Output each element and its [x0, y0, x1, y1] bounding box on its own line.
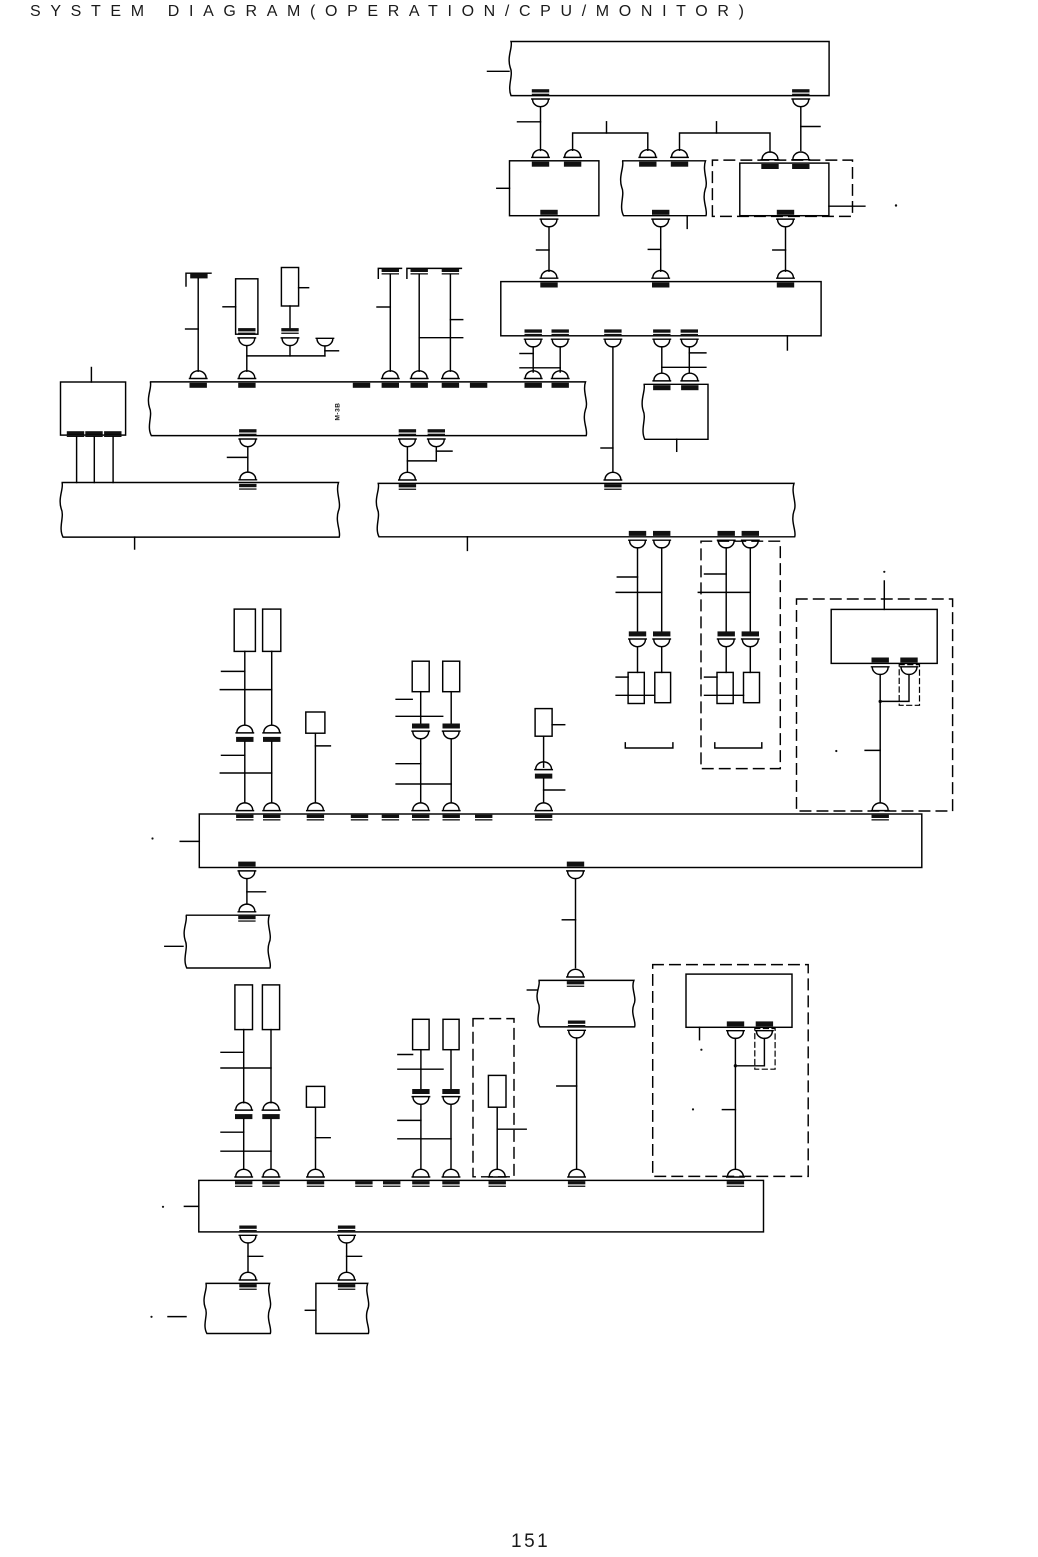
wire G10 to R1 — [243, 1119, 245, 1169]
jumper EA bracket — [378, 268, 401, 278]
tick at P13 left — [527, 989, 537, 991]
tick on wire J4-J5 — [606, 122, 608, 133]
stub below P5 right — [786, 336, 788, 350]
connector J24 on P7 top — [382, 371, 399, 388]
crossing link through H1 — [616, 694, 655, 696]
wire J11 down — [660, 227, 662, 271]
board box P9 (torn left) — [642, 384, 708, 439]
tick on F4 left — [396, 698, 412, 700]
component H3 box — [717, 672, 733, 703]
connector K8 on P8R bottom — [653, 531, 670, 548]
tick at P17 left — [305, 1309, 316, 1311]
crossing link K7-K8 — [616, 591, 662, 593]
connector L9 on P11 bottom — [567, 862, 584, 879]
inline connector G6 on wire K7 — [629, 631, 646, 646]
inline connector G12 on wire F10 — [412, 1089, 429, 1104]
wire F4 down — [420, 692, 422, 724]
dashed enclosure D1 — [701, 541, 780, 768]
inline connector G11 on wire F8 — [262, 1102, 279, 1119]
wire E4 to bus — [324, 346, 326, 356]
bus joining E2 E3 E4 — [247, 355, 325, 357]
tick on wire J32 — [436, 450, 452, 452]
connector L8 on P11 bottom — [238, 862, 255, 879]
connector J15 on P5 top — [777, 271, 794, 288]
jumper EB bar — [411, 269, 428, 275]
crossing link through H3 — [705, 694, 744, 696]
inline connector G3 on wire F4 — [412, 724, 429, 739]
board box P16 (torn left+right) — [204, 1283, 271, 1333]
dashed enclosure D2 — [797, 599, 953, 811]
connector L3 on P11 top — [307, 803, 324, 821]
wire stub from P4 right — [829, 205, 865, 207]
tick on wire J6-J7 — [716, 122, 718, 133]
stub below P8L — [134, 537, 136, 549]
title — [30, 3, 754, 21]
tick on wire K9 — [705, 573, 727, 575]
dashed enclosure around P4 — [712, 160, 852, 216]
board box P14 — [686, 974, 792, 1027]
wire stub into P6 top — [90, 368, 92, 383]
tick on wire L9 — [562, 919, 575, 921]
connector R2 on P15 top — [262, 1169, 279, 1187]
tick on wire J11 — [648, 248, 660, 250]
wire J2 to J10 — [800, 108, 802, 151]
component F7 box — [235, 985, 253, 1030]
connector S2 on P17 top — [338, 1272, 355, 1290]
connector J5 on P3 top — [639, 150, 656, 167]
crossing link under G3-G4 — [396, 783, 451, 785]
component F4 box — [412, 661, 429, 692]
dome under E3 — [281, 338, 298, 346]
wire F1 down — [244, 651, 246, 724]
tick on wire M1 — [865, 749, 880, 751]
stub below P14 left — [699, 1027, 701, 1039]
connector J16 on P5 bottom — [525, 329, 542, 347]
board box P4 — [740, 163, 829, 216]
tick on E3 right — [299, 287, 309, 289]
connector K11 on P9 top — [653, 373, 670, 390]
board box P8L (torn left+right) — [60, 483, 339, 538]
connector L4 on P11 top — [412, 803, 429, 821]
tick on wire E4 — [325, 350, 339, 352]
tick on wire J16 — [520, 353, 533, 355]
tick on wire EC — [450, 319, 462, 321]
board box P13 (torn left+right) — [537, 980, 635, 1027]
connector J30 on P7 bottom — [239, 429, 256, 447]
wire K3 down to P8L — [112, 437, 114, 483]
wire EC down to J26 — [449, 274, 451, 371]
jumper E1 bracket — [186, 273, 211, 286]
connector J19 on P5 bottom — [653, 329, 670, 347]
inline connector G4 on wire F5 — [443, 724, 460, 739]
crossing link under F10 — [398, 1068, 443, 1070]
connector J20 on P5 bottom — [681, 329, 698, 347]
tick on wire F3 — [315, 745, 330, 747]
tick under G5 — [544, 789, 565, 791]
connector K10 on P8R bottom (in dashed area) — [742, 531, 759, 548]
connector M3 on P14 bottom — [727, 1021, 744, 1038]
connector J2 on P1 bottom — [792, 89, 809, 107]
component F6 box — [535, 709, 552, 737]
connector J14 on P5 top — [652, 271, 669, 288]
wire R10 down — [247, 1243, 249, 1271]
wire F10 down — [420, 1050, 422, 1090]
connector L6 on P11 top — [535, 803, 552, 821]
component H2 box — [655, 672, 671, 702]
tick on F10 left — [398, 1054, 413, 1056]
connector M1 on P10 bottom — [872, 658, 889, 675]
jumper EA bar — [382, 269, 399, 275]
board box P6 — [61, 382, 126, 435]
dome E4 — [316, 338, 333, 346]
connector R8 on P15 top — [568, 1169, 585, 1187]
wire M2 elbow to junction — [880, 675, 909, 702]
component F3 square — [306, 712, 325, 733]
tick under G12 — [398, 1119, 421, 1121]
wire L8 down — [246, 879, 248, 903]
connector J32 on P7 bottom — [428, 429, 445, 447]
tick on wire F7 — [221, 1051, 244, 1053]
wire F8 down — [270, 1030, 272, 1103]
wire K2 down to P8L — [93, 437, 95, 483]
plain bar connector R3c on P15 top — [383, 1181, 400, 1187]
svg-text:M-3B: M-3B — [335, 403, 342, 421]
tick on wire N3 — [557, 1085, 577, 1087]
wire J20 down to P9 — [688, 347, 690, 373]
connector R6 on P15 top — [489, 1169, 506, 1187]
wire F3 down to L3 — [314, 733, 316, 802]
connector J31 on P7 bottom — [399, 429, 416, 447]
connector J11 on P3 bottom — [652, 210, 669, 227]
inline connector G13 on wire F11 — [442, 1089, 459, 1104]
component H4 box — [744, 672, 760, 702]
merge link J31-J32 — [407, 460, 436, 462]
tick on wire L8 — [247, 891, 266, 893]
connector S1 on P16 top — [239, 1272, 256, 1290]
dome under E2 — [238, 338, 255, 346]
wire J19 down to P9 — [661, 347, 663, 373]
crossing link wire J16-J17 — [520, 367, 560, 369]
tick under G1 — [222, 754, 245, 756]
tick on wire J12 — [773, 249, 786, 251]
wire L9 down — [575, 879, 577, 968]
page number 151 — [511, 1531, 550, 1553]
inline connector G10 on wire F7 — [235, 1102, 252, 1119]
wire E3 to bus — [289, 346, 291, 356]
wire J17 down — [559, 347, 561, 372]
board box P1 (torn left edge) — [509, 42, 829, 96]
plain bar connector L3b on P11 top — [351, 815, 368, 821]
board box P11 — [199, 814, 922, 868]
stray dot below stub — [700, 1049, 702, 1051]
connector L2 on P11 top — [263, 803, 280, 821]
wire G1 to L1 — [244, 742, 246, 803]
board box P12 (torn left+right) — [184, 915, 270, 968]
tick on F6 right — [552, 724, 565, 726]
inline connector G5 on wire F6 — [535, 762, 552, 779]
tick on wire F12 — [497, 1128, 526, 1130]
jumper E1 bar — [190, 273, 207, 278]
connector J18 on P5 bottom — [604, 329, 621, 347]
tick on H3 left — [705, 676, 718, 678]
board box P17 (torn right) — [316, 1283, 369, 1333]
tick on wire J9 — [537, 249, 550, 251]
wire F9 down to R3 — [315, 1107, 317, 1169]
wire K7 down — [637, 548, 639, 631]
connector K12 on P9 top — [681, 373, 698, 390]
component F8 box — [262, 985, 279, 1030]
board box P10 — [831, 609, 937, 663]
wire E3 down — [289, 306, 291, 328]
wire G11 to R2 — [270, 1119, 272, 1169]
dashed enclosure D3 — [653, 965, 809, 1177]
wire M1 down to L7 — [879, 675, 881, 803]
connector L1 on P11 top — [236, 803, 253, 821]
connector N1 on P12 top — [238, 904, 255, 922]
component F5 box — [443, 661, 460, 692]
wire N3 down to R8 — [576, 1038, 578, 1169]
wire G13 to R5 — [450, 1105, 452, 1170]
stray dot — [895, 204, 897, 206]
connector R3 on P15 top — [307, 1169, 324, 1187]
tick on wire F1 — [222, 670, 245, 672]
tick at P11 left — [180, 840, 199, 842]
wire J1 to J3 — [540, 108, 542, 151]
tick on wire E1 — [186, 328, 199, 330]
wire EA down to J24 — [389, 274, 391, 371]
tick at P16 left — [168, 1316, 186, 1318]
component F10 box — [413, 1019, 430, 1049]
stray dot left of wire M3 — [692, 1108, 694, 1110]
wire stub into board P1 left — [488, 70, 510, 72]
wire J18 down to P8 — [612, 347, 614, 472]
stray dot above P10 — [883, 571, 885, 573]
wire J32 down to merge — [435, 447, 437, 461]
component F2 box — [263, 609, 281, 651]
tick on H1 left — [616, 676, 628, 678]
wire EB down to J25 — [418, 274, 420, 371]
wire J6 to J7 — [680, 133, 771, 152]
connector J21 on P7 top — [190, 371, 207, 388]
wire F2 down — [271, 651, 273, 724]
wire F11 down — [450, 1050, 452, 1090]
board box P3 (torn left+right) — [621, 161, 707, 216]
label bracket under H3-H4 — [715, 743, 762, 748]
plain bar connector L3c on P11 top — [382, 815, 399, 821]
connector N3 on P13 bottom — [568, 1021, 585, 1039]
wire G7 to H2 — [661, 647, 663, 673]
connector K7 on P8R bottom — [629, 531, 646, 548]
plain bar connector J23 on P7 top — [353, 383, 370, 388]
connector K9 on P8R bottom (in dashed area) — [718, 531, 735, 548]
wire K9 down — [725, 548, 727, 631]
board box P8R (torn left+right) — [376, 483, 795, 536]
connector J3 on P2 top — [532, 150, 549, 167]
stray dot left of wire M1 — [835, 750, 837, 752]
plain bar connector R3b on P15 top — [355, 1181, 372, 1187]
component F11 box — [443, 1019, 459, 1049]
wire F7 down — [243, 1030, 245, 1103]
wire G3 to L4 — [420, 739, 422, 803]
tick on wire J18 — [601, 447, 613, 449]
tick under G3 — [396, 763, 421, 765]
wire R11 down — [346, 1243, 348, 1271]
wire G12 to R4 — [420, 1105, 422, 1170]
stray dot left of P15 — [162, 1206, 164, 1208]
tick on E2 left — [223, 306, 236, 308]
inline connector G1 on wire F1 — [236, 725, 253, 742]
connector J13 on P5 top — [540, 271, 557, 288]
tick on wire J1-J3 — [518, 121, 541, 123]
connector J7 on P4 top — [761, 152, 778, 169]
wire J31 down chain — [406, 447, 408, 472]
wire into P10 top — [883, 581, 885, 609]
crossing link F7-F8 — [221, 1067, 271, 1069]
component F1 box — [234, 609, 255, 651]
connector J26 on P7 top — [442, 371, 459, 388]
wire F5 down — [450, 692, 452, 724]
jumper EB-EC bracket — [407, 268, 462, 278]
connector bar inside E2 bottom — [238, 328, 255, 334]
wire G5 to L6 — [543, 779, 545, 803]
tick on wire R11 — [347, 1255, 362, 1257]
wire E1 down to J21 — [197, 278, 199, 371]
wire K8 down — [661, 548, 663, 631]
crossing link under G1-G2 — [220, 772, 271, 774]
stray dot left of P16 — [150, 1316, 152, 1318]
component E3 box — [281, 268, 298, 307]
connector R11 on P15 bottom — [338, 1226, 355, 1244]
junction dot M3-M4 — [734, 1064, 737, 1067]
connector J1 on P1 bottom — [532, 89, 549, 107]
tick at P15 left — [184, 1205, 198, 1207]
crossing link K9-K10 — [698, 591, 750, 593]
board box P5 — [501, 282, 821, 336]
connector J9 on P2 bottom — [540, 210, 557, 227]
connector K1 on P6 bottom — [67, 431, 84, 437]
inline connector G8 on wire K9 — [718, 631, 735, 646]
tick on wire K7 — [617, 576, 637, 578]
junction dot M1-M2 — [879, 700, 882, 703]
connector J12 on P4 bottom — [777, 210, 794, 227]
component E2 box — [236, 279, 258, 334]
connector L7 on P11 top — [872, 803, 889, 821]
wire G6 to H1 — [637, 647, 639, 673]
wire J12 down — [785, 227, 787, 271]
stub below P8L right part — [466, 537, 468, 551]
tick on wire J30 — [228, 456, 248, 458]
mini dashed enclosure around M2 wire — [899, 665, 919, 706]
wire M3 down to R9 — [734, 1039, 736, 1170]
connector L5 on P11 top — [443, 803, 460, 821]
inline connector G9 on wire K10 — [742, 631, 759, 646]
wire G2 to L2 — [271, 742, 273, 803]
connector J17 on P5 bottom — [552, 329, 569, 347]
connector R9 on P15 top — [727, 1169, 744, 1187]
wire E2 down to bus — [246, 346, 248, 372]
label bracket under H1-H2 — [625, 743, 673, 748]
connector M4 on P14 bottom — [756, 1021, 773, 1038]
connector R10 on P15 bottom — [239, 1226, 256, 1244]
connector R5 on P15 top — [442, 1169, 459, 1187]
connector bar under E3 — [281, 328, 298, 334]
board box P15 — [199, 1180, 764, 1232]
connector K2 on P6 bottom — [85, 431, 102, 437]
connector J6 on P3 top — [671, 150, 688, 167]
crossing link under G10-G11 — [221, 1150, 271, 1152]
connector K5 on P8R top — [399, 472, 416, 490]
wire J4 to J5 — [573, 133, 648, 150]
mini dashed enclosure around M4 wire — [755, 1029, 775, 1070]
component H1 box — [628, 672, 644, 703]
wire G8 to H3 — [725, 647, 727, 673]
component F9 square — [306, 1086, 324, 1107]
tick on wire EA — [377, 306, 390, 308]
connector M2 on P10 bottom — [900, 658, 917, 675]
wire G4 to L5 — [450, 739, 452, 803]
wire F6 down — [543, 736, 545, 767]
connector K4 on P8L top — [239, 472, 256, 490]
tick on wire J2-J10 — [801, 126, 820, 128]
connector R4 on P15 top — [412, 1169, 429, 1187]
wire K10 down — [749, 548, 751, 631]
crossing link wire J19-J20 — [662, 366, 706, 368]
connector J8 on P4 top — [792, 152, 809, 169]
crossing link under F4 — [396, 715, 443, 717]
connector J29 on P7 top (from J17) — [552, 371, 569, 388]
wire J30 down chain — [247, 447, 249, 472]
inline connector G7 on wire K8 — [653, 631, 670, 646]
inline connector G2 on wire F2 — [263, 725, 280, 742]
wire G9 to H4 — [749, 647, 751, 673]
stray dot left of P11 — [151, 837, 153, 839]
tick on wire J20 — [689, 352, 706, 354]
wire F12 down to R6 — [496, 1107, 498, 1169]
main board box P7 (torn left+right) — [148, 382, 586, 436]
connector J22 on P7 top — [238, 371, 255, 388]
connector K3 on P6 bottom — [104, 431, 121, 437]
tick on wire F9 — [316, 1137, 331, 1139]
crossing link under G12-G13 — [398, 1138, 451, 1140]
board box P2 — [510, 161, 599, 216]
wire J9 down — [548, 227, 550, 271]
crossing link F1-F2 — [220, 689, 271, 691]
wire M4 elbow to junction — [735, 1039, 764, 1066]
stub below P9 — [676, 439, 678, 451]
connector J28 on P7 top (from J16) — [525, 371, 542, 388]
wire stub into P2 left — [497, 187, 510, 189]
wire K1 down to P8L — [76, 437, 78, 483]
tick on wire R10 — [248, 1255, 263, 1257]
tick at P12 left — [165, 945, 183, 947]
connector N2 on P13 top — [567, 969, 584, 987]
jumper EC bar — [442, 269, 459, 275]
component F12 box — [488, 1075, 506, 1107]
connector K6 on P8R top (from J18) — [604, 472, 621, 490]
plain bar connector L5b on P11 top — [475, 815, 492, 821]
dashed enclosure D4 — [473, 1019, 514, 1177]
connector J25 on P7 top — [411, 371, 428, 388]
stub below P3 — [686, 216, 688, 229]
crossing link EB-EC — [419, 337, 463, 339]
tick under G10 — [221, 1131, 244, 1133]
plain bar connector J27 on P7 top — [470, 383, 487, 388]
tick on wire M3 — [722, 1109, 735, 1111]
connector J4 on P2 top — [564, 150, 581, 167]
connector R1 on P15 top — [235, 1169, 252, 1187]
wire J16 down to main board — [532, 347, 534, 372]
